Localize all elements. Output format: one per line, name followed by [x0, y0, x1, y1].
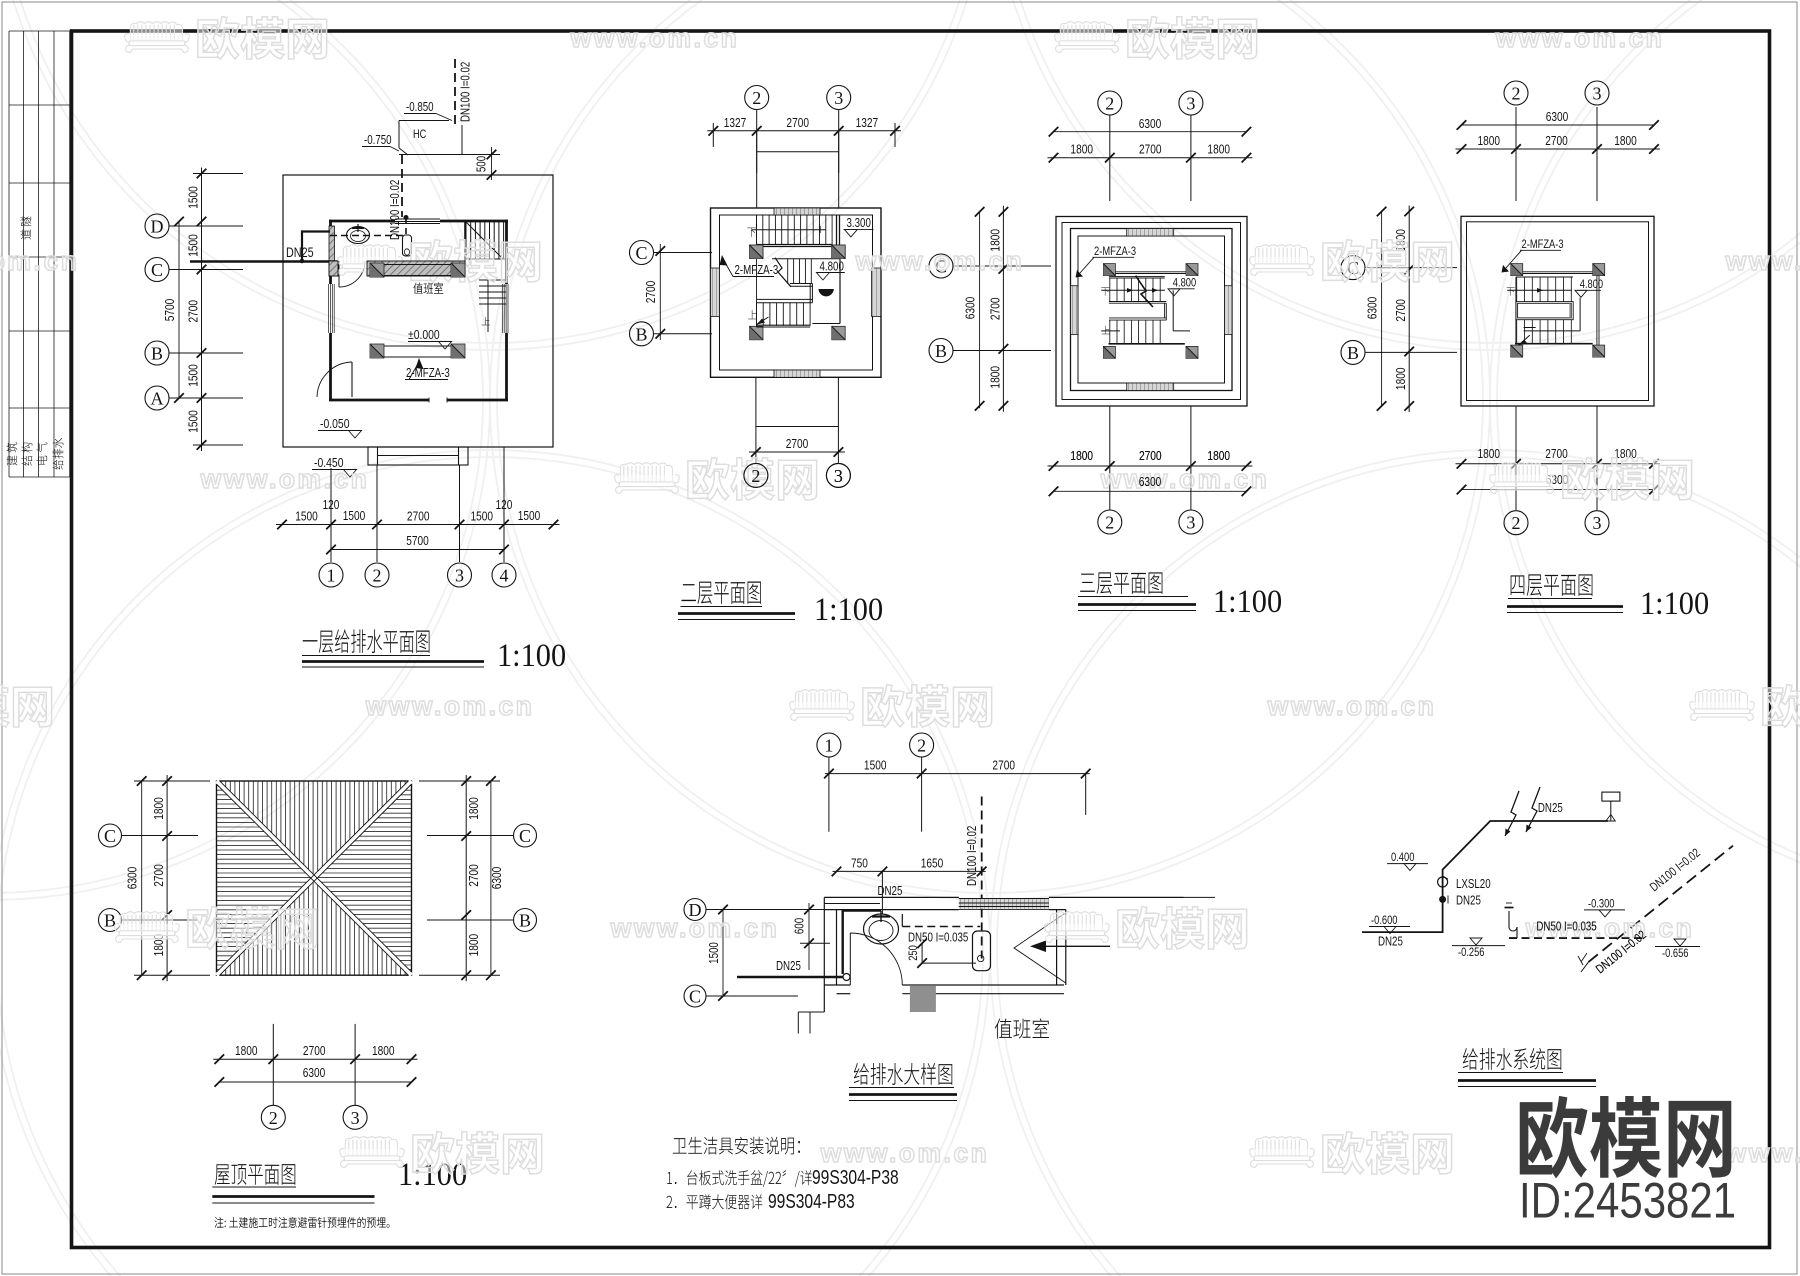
plan4 outer square [1461, 216, 1654, 406]
detail dim2 [833, 870, 986, 872]
system water meter LXSL20 [1438, 877, 1448, 887]
detail room top wall [824, 896, 959, 898]
svg-text:2700: 2700 [407, 509, 430, 523]
svg-text:HC: HC [413, 129, 427, 141]
svg-text:1800: 1800 [1478, 447, 1501, 461]
svg-text:2700: 2700 [186, 299, 200, 322]
svg-text:4.800: 4.800 [820, 260, 844, 273]
svg-text:www.om.cn: www.om.cn [1100, 464, 1270, 494]
plan1 title [303, 629, 430, 653]
system supply pipe [1362, 821, 1608, 932]
svg-text:0.400: 0.400 [1391, 851, 1414, 864]
svg-text:www.om.cn: www.om.cn [1267, 691, 1437, 721]
plan1 DN100 vent dashed [454, 59, 456, 125]
plan3 rail [1101, 289, 1165, 291]
detail door arrow [1034, 945, 1110, 947]
plan4 left dims [1381, 212, 1383, 407]
svg-text:1327: 1327 [724, 116, 747, 130]
svg-text:DN100 I=0.02: DN100 I=0.02 [389, 180, 402, 240]
plan2 left window [711, 268, 720, 316]
svg-text:4: 4 [500, 566, 509, 586]
svg-text:DN25: DN25 [1538, 802, 1563, 815]
svg-text:C: C [151, 260, 163, 280]
plan2 outer wall [711, 208, 882, 377]
system DN100 diagonal dashed [1589, 846, 1734, 962]
svg-text:A: A [151, 389, 164, 409]
roof note [214, 1217, 389, 1228]
title block text 电气 [36, 442, 47, 464]
svg-text:B: B [151, 344, 163, 364]
plan2 bottom bracket [756, 426, 839, 428]
plan1 porch [368, 447, 468, 465]
plan1 site square [283, 175, 553, 447]
svg-text:600: 600 [793, 918, 806, 934]
svg-text:-0.600: -0.600 [1371, 914, 1398, 927]
svg-text:ID:2453821: ID:2453821 [1519, 1172, 1736, 1228]
system valve dot [1440, 896, 1446, 902]
svg-text:B: B [519, 911, 531, 931]
svg-text:DN25: DN25 [1456, 894, 1481, 907]
plan1 axis lines [169, 225, 243, 227]
detail door arc bottom [849, 933, 851, 985]
svg-text:3: 3 [1593, 513, 1602, 533]
plan3 bottom window [1127, 383, 1174, 391]
svg-text:B: B [104, 911, 116, 931]
svg-text:2: 2 [269, 1108, 278, 1128]
plan4 bottom axis lines [1515, 406, 1517, 510]
svg-text:-0.656: -0.656 [1662, 947, 1689, 960]
svg-text:1500: 1500 [343, 509, 366, 523]
detail title [854, 1063, 953, 1085]
plan2 top dim [707, 130, 901, 132]
svg-text:3.300: 3.300 [847, 217, 871, 230]
svg-text:-0.050: -0.050 [320, 417, 350, 431]
plan2 top window [774, 208, 820, 215]
svg-text:6300: 6300 [963, 296, 977, 319]
svg-text:1500: 1500 [518, 509, 541, 523]
svg-text:2: 2 [373, 566, 382, 586]
svg-text:99S304-P38: 99S304-P38 [812, 1166, 899, 1188]
svg-text:1500: 1500 [186, 234, 200, 257]
plan2 title [681, 582, 760, 605]
svg-text:DN25: DN25 [1378, 935, 1403, 948]
roof diagonal ridges [217, 781, 412, 975]
plan2 right wall line [839, 247, 841, 324]
svg-text:2700: 2700 [152, 864, 166, 887]
plan2 columns [750, 245, 764, 259]
title block text 建筑 [6, 442, 17, 465]
detail right door [1056, 910, 1058, 985]
plan4 right wall [1596, 275, 1598, 345]
svg-text:1500: 1500 [295, 509, 318, 523]
plan1 toilet [403, 235, 412, 256]
svg-text:2: 2 [1512, 513, 1521, 533]
plan1 basin faucet [352, 227, 364, 229]
detail top dim [825, 773, 1090, 775]
plan1 bottom-left door [351, 362, 353, 397]
plan3 top flight [1109, 276, 1165, 278]
roof title [215, 1164, 296, 1185]
title block text 给排水 [52, 438, 63, 470]
svg-text:DN50 I=0.035: DN50 I=0.035 [908, 931, 968, 944]
plan2 inner wall [720, 215, 873, 370]
svg-text:-0.300: -0.300 [1588, 897, 1615, 910]
roof left dims [141, 781, 143, 975]
svg-text:3: 3 [834, 466, 843, 486]
svg-text:1800: 1800 [1614, 134, 1637, 148]
svg-text:1:100: 1:100 [814, 591, 883, 627]
svg-text:www.om.cn: www.om.cn [1725, 246, 1800, 276]
plan2 floor drain half-circle [819, 290, 833, 296]
plan2 left dim 2700 [659, 244, 661, 340]
plan2 bottom axis lines [755, 377, 757, 463]
detail DN50 dashed [902, 926, 980, 928]
plan2 bottom flight [756, 303, 758, 326]
plan1 toilet back wall hatch [329, 226, 335, 261]
roof bottom dims [272, 1024, 274, 1105]
plan3 top window [1127, 229, 1174, 237]
svg-text:1500: 1500 [708, 942, 721, 964]
plan3 stairwell lines [1172, 290, 1174, 331]
plan2 axis lines top [756, 110, 758, 208]
plan2 top bubbles [745, 86, 769, 110]
svg-text:www.om.cn: www.om.cn [200, 464, 370, 494]
plan3 outer square [1056, 217, 1247, 407]
plan2 stair down text [747, 228, 756, 237]
svg-text:6300: 6300 [1365, 296, 1379, 319]
svg-text:250: 250 [907, 945, 920, 961]
plan2 bottom window [774, 370, 820, 377]
svg-text:2-MFZA-3: 2-MFZA-3 [735, 264, 779, 277]
svg-text:3: 3 [1186, 513, 1195, 533]
detail dim 600 [808, 903, 810, 970]
svg-text:www.om.cn: www.om.cn [570, 23, 740, 53]
plan3 top bubbles [1098, 91, 1122, 115]
title block text 结构 [21, 443, 32, 466]
svg-text:B: B [635, 324, 647, 344]
detail bottom wall [824, 984, 850, 986]
svg-text:DN100 I=0.02: DN100 I=0.02 [966, 826, 979, 886]
plan4 top dims [1462, 124, 1655, 126]
plan1 stair partition right [464, 221, 466, 261]
plan4 top bubbles [1504, 81, 1528, 105]
svg-text:6300: 6300 [1546, 110, 1569, 124]
svg-text:1327: 1327 [856, 116, 879, 130]
svg-text:2700: 2700 [786, 437, 809, 451]
svg-text:2700: 2700 [1545, 134, 1568, 148]
svg-text:1800: 1800 [1478, 134, 1501, 148]
plan4 bottom flight [1516, 320, 1518, 344]
svg-text:1500: 1500 [186, 186, 200, 209]
system vent end [1581, 962, 1589, 972]
plan3 beam lines top [1115, 271, 1186, 273]
svg-text:2: 2 [1105, 513, 1114, 533]
plan1 dim 500 [491, 147, 493, 180]
svg-text:2700: 2700 [786, 116, 809, 130]
svg-text:C: C [104, 826, 116, 846]
plan2 bracket 2700 [756, 131, 758, 173]
plan1 bottom dim chain [276, 524, 560, 526]
svg-text:2700: 2700 [1139, 143, 1162, 157]
svg-text:6300: 6300 [1139, 117, 1162, 131]
svg-text:2-MFZA-3: 2-MFZA-3 [1522, 238, 1564, 251]
svg-text:4.800: 4.800 [1173, 276, 1196, 289]
svg-text:6300: 6300 [490, 866, 504, 889]
svg-text:1800: 1800 [1207, 143, 1230, 157]
plan1 text 值班室 [413, 282, 443, 293]
svg-text:1800: 1800 [467, 933, 481, 956]
svg-text:DN50 I=0.035: DN50 I=0.035 [1536, 920, 1596, 933]
roof left axes [99, 824, 122, 847]
watermark tiles [125, 22, 190, 53]
plan4 down text [1507, 287, 1515, 295]
system break symbols [1505, 791, 1519, 836]
svg-text:DN25: DN25 [878, 885, 903, 898]
roof right dims [465, 775, 467, 981]
plan2 stair rail arrow [752, 229, 826, 231]
plan1 bottom bubbles 1234 [319, 563, 343, 587]
svg-text:750: 750 [851, 856, 868, 870]
svg-text:2700: 2700 [1394, 299, 1408, 322]
detail left axes [684, 899, 706, 921]
title block text 隧道 [20, 216, 31, 239]
system DN50 dashed [1509, 937, 1642, 939]
system level -0.656 [1655, 946, 1700, 948]
plan3 bottom dims [1048, 465, 1253, 467]
notes heading [673, 1137, 800, 1155]
svg-text:C: C [519, 826, 531, 846]
svg-text:2700: 2700 [467, 864, 481, 887]
svg-text:B: B [1347, 343, 1359, 363]
svg-text:DN25: DN25 [776, 960, 801, 973]
svg-text:2700: 2700 [988, 297, 1002, 320]
svg-text:1650: 1650 [921, 856, 944, 870]
plan1 interior columns [370, 263, 384, 277]
plan1 toilet pipe dashed [330, 235, 404, 237]
roof bottom bubbles [261, 1105, 285, 1129]
svg-text:B: B [935, 341, 947, 361]
plan4 bottom dims [1456, 463, 1661, 465]
plan4 stairwell [1516, 302, 1573, 320]
system tank [1602, 792, 1620, 801]
svg-text:2: 2 [752, 88, 761, 108]
detail dim 1500 [722, 910, 724, 997]
plan1 left dim chain [201, 168, 203, 452]
svg-text:www.om.cn: www.om.cn [1725, 1138, 1800, 1168]
svg-text:1800: 1800 [1394, 367, 1408, 390]
plan2 stair up text [748, 310, 757, 319]
svg-text:2700: 2700 [992, 758, 1015, 772]
plan3 top dims [1054, 131, 1247, 133]
detail DN100 dashed riser [981, 797, 983, 959]
svg-text:120: 120 [323, 498, 340, 512]
svg-text:1:100: 1:100 [1213, 583, 1282, 619]
plan2 stair redraw columns [750, 245, 764, 259]
plan2 bottom bubbles [744, 463, 768, 487]
plan3 left dims [979, 212, 981, 408]
svg-text:2700: 2700 [303, 1044, 326, 1058]
svg-text:3: 3 [1593, 84, 1602, 104]
svg-text:1800: 1800 [1070, 143, 1093, 157]
svg-text:1800: 1800 [1070, 449, 1093, 463]
svg-text:DN25: DN25 [286, 245, 314, 260]
svg-text:3: 3 [351, 1108, 360, 1128]
plan3 bottom axis lines [1109, 406, 1111, 510]
detail top bubbles [817, 733, 841, 757]
plan1 right window [501, 284, 503, 333]
plan3 down text [1101, 287, 1109, 295]
plan2 up arrow [757, 317, 769, 325]
plan3 landing [1164, 303, 1166, 318]
svg-text:1800: 1800 [1614, 447, 1637, 461]
svg-text:99S304-P83: 99S304-P83 [768, 1190, 855, 1212]
plan1 stair treads right [479, 279, 507, 281]
svg-text:1800: 1800 [152, 797, 166, 820]
plan2 mid flight [775, 258, 791, 287]
svg-text:6300: 6300 [125, 866, 139, 889]
plan1 bottom overall dim 5700 [331, 549, 504, 551]
svg-text:3: 3 [455, 566, 464, 586]
plan4 up arrow [1518, 335, 1529, 345]
plan1 room door bottom opening [428, 398, 430, 403]
title block table [9, 31, 70, 477]
svg-text:www.om.cn: www.om.cn [610, 913, 780, 943]
plan4 rail [1507, 289, 1572, 291]
system level -0.256 [1452, 945, 1505, 947]
svg-text:1800: 1800 [467, 797, 481, 820]
svg-text:www.om.cn: www.om.cn [1495, 23, 1665, 53]
svg-text:LXSL20: LXSL20 [1456, 878, 1491, 891]
plan3 z-break [1136, 276, 1153, 307]
svg-text:6300: 6300 [1139, 475, 1162, 489]
svg-text:-0.750: -0.750 [364, 134, 392, 147]
plan1 drain line [461, 125, 463, 154]
svg-text:2: 2 [751, 466, 760, 486]
detail supply pipes [737, 976, 843, 978]
svg-text:1: 1 [327, 566, 336, 586]
svg-text:1:100: 1:100 [497, 637, 566, 673]
svg-text:2700: 2700 [1545, 447, 1568, 461]
plan3 bottom flight [1109, 320, 1111, 344]
svg-text:www.om.cn: www.om.cn [820, 1138, 990, 1168]
system redraw labels [1509, 937, 1642, 939]
svg-text:1800: 1800 [988, 366, 1002, 389]
svg-text:1500: 1500 [471, 509, 494, 523]
svg-text:1: 1 [824, 736, 833, 756]
plan1 axis bubbles DCBA [145, 214, 169, 238]
plan1 left overall dim 5700 [178, 222, 180, 399]
plan3 title [1080, 572, 1162, 594]
svg-text:1800: 1800 [235, 1044, 258, 1058]
svg-text:C: C [689, 987, 701, 1007]
plan1 outer walls [329, 220, 395, 223]
plan4 title [1511, 574, 1593, 596]
svg-text:3: 3 [1186, 94, 1195, 114]
plan3 left axes [929, 254, 953, 278]
detail left wall [823, 897, 825, 1012]
svg-text:1500: 1500 [186, 364, 200, 387]
plan2 left axes [630, 241, 654, 265]
plan3 right window [1225, 286, 1233, 335]
detail bottom-left wall step [798, 1011, 824, 1013]
svg-text:120: 120 [496, 498, 513, 512]
svg-text:6300: 6300 [303, 1066, 326, 1080]
svg-text:2: 2 [1105, 94, 1114, 114]
detail walls extension right [1184, 896, 1216, 898]
svg-text:-0.850: -0.850 [406, 101, 434, 114]
plan2 bottom dim line [749, 451, 845, 453]
plan4 beam top [1523, 271, 1593, 273]
plan3 wall square [1071, 229, 1233, 391]
svg-text:1800: 1800 [1207, 449, 1230, 463]
plan4 columns [1511, 264, 1523, 276]
plan3 up text [1102, 326, 1110, 334]
plan1 bottom axis lines [330, 468, 332, 562]
roof right axes [514, 824, 537, 847]
detail squat toilet [973, 931, 991, 971]
svg-text:-0.256: -0.256 [1458, 946, 1485, 959]
plan1 HC box [399, 120, 449, 122]
plan1 top-left door arc [339, 261, 365, 287]
svg-text:5700: 5700 [163, 298, 177, 321]
detail room label 值班室 [995, 1018, 1049, 1038]
plan2 right window [872, 268, 882, 316]
svg-text:1:100: 1:100 [1640, 585, 1709, 621]
svg-text:500: 500 [475, 156, 488, 172]
detail column [910, 986, 936, 1012]
svg-text:4.800: 4.800 [1580, 278, 1603, 291]
svg-text:2700: 2700 [1139, 449, 1162, 463]
plan1 partition redraw [329, 261, 338, 276]
plan3 columns [1103, 264, 1115, 276]
plan1 inner room walls [384, 264, 451, 266]
plan1 top window [395, 218, 440, 220]
note line2 [667, 1194, 763, 1209]
svg-text:www.om.cn: www.om.cn [365, 691, 535, 721]
plan4 left axes [1341, 256, 1365, 280]
plan1 stair flight top-right [465, 222, 467, 259]
plan3 top axis lines [1109, 115, 1111, 201]
detail dim 250 [921, 943, 923, 963]
detail wash basin [864, 914, 899, 944]
plan1 wash basin [347, 227, 370, 244]
plan1 text redraw [413, 282, 443, 293]
plan4 bottom rail [1524, 330, 1581, 332]
svg-text:±0.000: ±0.000 [408, 328, 440, 342]
plan3 left window [1071, 286, 1079, 335]
svg-text:D: D [151, 217, 164, 237]
plan1 stair up text [482, 317, 490, 325]
svg-text:5700: 5700 [406, 534, 429, 548]
svg-text:1500: 1500 [186, 410, 200, 433]
svg-text:C: C [635, 243, 647, 263]
plan4 top flight [1516, 276, 1573, 278]
plan3 bottom bubbles [1098, 510, 1122, 534]
svg-text:1500: 1500 [864, 758, 887, 772]
plan1 DN100 riser dashed [401, 155, 403, 217]
plan1 supply pipe [302, 232, 330, 262]
svg-text:1800: 1800 [372, 1044, 395, 1058]
system floor drain trap [1509, 911, 1517, 938]
svg-text:DN100 I=0.02: DN100 I=0.02 [459, 62, 472, 122]
svg-text:2700: 2700 [644, 280, 658, 303]
roof outline [217, 781, 412, 975]
plan2 stair top flight [756, 215, 758, 245]
svg-text:2-MFZA-3: 2-MFZA-3 [1094, 245, 1136, 258]
svg-text:www.om.cn: www.om.cn [0, 246, 79, 276]
plan4 bottom bubbles [1504, 511, 1528, 535]
svg-text:3: 3 [834, 88, 843, 108]
